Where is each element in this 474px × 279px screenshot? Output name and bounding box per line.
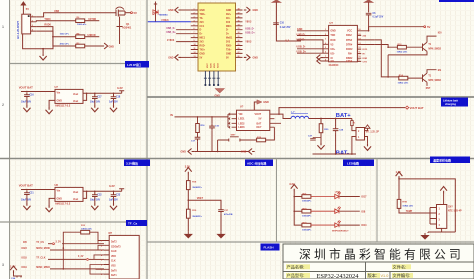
LED D2 — [311, 192, 341, 199]
svg-text:IO33: IO33 — [218, 62, 220, 68]
svg-text:V_3: V_3 — [285, 41, 290, 43]
svg-text:R232: R232 — [346, 34, 352, 37]
ground under C16 — [23, 99, 30, 112]
CH340 right net labels — [363, 35, 368, 63]
sheet border left — [2, 0, 10, 279]
TF bypass caps bottom-left — [10, 266, 22, 279]
svg-text:5V: 5V — [26, 7, 29, 11]
net label BAT+ (big blue) — [336, 113, 351, 119]
svg-text:D-: D- — [226, 30, 229, 32]
capacitor C2x on R30 leg — [308, 136, 321, 141]
resistor R23 1K — [302, 222, 312, 231]
resistor R12 10K — [397, 44, 408, 54]
svg-text:GND: GND — [226, 10, 231, 12]
svg-text:Lithium batt: Lithium batt — [443, 98, 458, 102]
svg-text:10KΩ ±5%: 10KΩ ±5% — [81, 229, 92, 231]
svg-text:D-: D- — [200, 30, 203, 32]
svg-text:0.1uF 25V: 0.1uF 25V — [280, 27, 291, 29]
svg-text:NPN_SMD2: NPN_SMD2 — [428, 49, 441, 51]
ground under module (filled triangle) — [215, 89, 225, 98]
svg-text:Vin: Vin — [57, 190, 61, 193]
resistor R18 390K — [187, 181, 203, 190]
regulator U8 AMS1117-3.3 — [55, 183, 84, 206]
svg-text:3V3: 3V3 — [226, 42, 231, 44]
svg-text:TEMP: TEMP — [406, 211, 413, 213]
svg-text:2: 2 — [325, 34, 326, 36]
svg-text:产品名称:: 产品名称: — [287, 264, 305, 271]
wire pin3 down to R2 row — [36, 27, 75, 38]
wires to grounds (charging left) — [194, 130, 249, 151]
connector J1 HC-1.25-4PWT — [16, 14, 36, 39]
CH340 pin numbers — [325, 29, 361, 61]
svg-text:IO27: IO27 — [207, 62, 209, 68]
svg-text:RXD-: RXD- — [226, 46, 232, 48]
LED D4 — [311, 220, 349, 232]
T1 emitter wire — [387, 51, 427, 77]
svg-text:2: 2 — [2, 103, 4, 107]
svg-text:1.25 4P接口: 1.25 4P接口 — [127, 63, 142, 67]
svg-text:C18: C18 — [116, 96, 121, 98]
svg-text:CLK: CLK — [111, 261, 116, 263]
svg-text:BT_1.25_2P: BT_1.25_2P — [366, 132, 379, 134]
svg-text:U7: U7 — [55, 85, 59, 89]
wires U8 output — [83, 191, 122, 199]
section divider: top of TF card section — [0, 221, 147, 223]
svg-text:3V3: 3V3 — [200, 42, 205, 44]
svg-text:C10: C10 — [280, 23, 285, 25]
svg-text:5: 5 — [325, 47, 326, 49]
svg-text:1000ΩPs: 1000ΩPs — [302, 201, 312, 203]
svg-text:DTR#: DTR# — [346, 43, 353, 46]
ground under C23 — [110, 199, 117, 210]
power port 5V above C6 — [365, 0, 373, 13]
CH340 right pin stubs — [357, 30, 374, 61]
svg-text:IN: IN — [170, 114, 173, 117]
svg-text:M?: M? — [109, 232, 113, 235]
resistor R16 vertical — [196, 117, 206, 133]
ground under R30 — [317, 138, 324, 150]
svg-text:SW?: SW? — [231, 135, 237, 137]
svg-text:Y8U3: Y8U3 — [245, 21, 252, 24]
net label IN — [170, 114, 231, 127]
transistor T2 S8050 — [408, 73, 442, 82]
label box LED circuit — [343, 160, 374, 167]
svg-text:5V: 5V — [226, 57, 229, 59]
svg-text:YIN: YIN — [238, 113, 242, 116]
svg-text:1: 1 — [2, 25, 4, 29]
regulator U7 AMS1117-3.3 — [55, 85, 84, 108]
svg-text:3.3V: 3.3V — [109, 184, 115, 188]
svg-text:0.1uF 25V: 0.1uF 25V — [373, 17, 384, 19]
resistor R13 10K — [81, 225, 92, 234]
svg-text:10KΩ ±5%: 10KΩ ±5% — [397, 52, 408, 54]
T2 collector wire — [427, 70, 441, 73]
svg-text:FLASH: FLASH — [264, 246, 274, 250]
transistor Q1 AO3401 — [113, 7, 132, 30]
net label TEMP — [399, 208, 430, 213]
ground pin of U8 — [46, 198, 56, 211]
resistor R19 — [240, 137, 266, 142]
svg-text:3_3V: 3_3V — [78, 256, 84, 258]
TF row1 TF_CS — [23, 241, 104, 245]
svg-text:CTS#: CTS# — [346, 60, 353, 63]
svg-text:LED电路: LED电路 — [347, 160, 360, 165]
ground arrow right of module pin13 — [244, 54, 258, 60]
module bottom pins (no-connect) — [204, 71, 220, 86]
svg-text:XO: XO — [330, 60, 334, 63]
svg-text:DaT1: DaT1 — [111, 275, 117, 277]
section divider: vertical at x=276 — [276, 159, 278, 243]
svg-text:GND: GND — [226, 53, 231, 55]
TF card connector M1 — [109, 232, 140, 279]
svg-text:C22: C22 — [97, 194, 102, 196]
ESP32 module U2 (yellow) — [198, 3, 236, 71]
svg-text:USB_D-: USB_D- — [245, 27, 254, 30]
resistor R13b 10K — [398, 74, 409, 85]
svg-text:390KΩPs: 390KΩPs — [192, 187, 202, 189]
row: version label — [367, 272, 388, 279]
svg-text:3.3V: 3.3V — [117, 86, 123, 90]
TF connector pin stubs — [101, 241, 109, 277]
ground under C21 — [23, 197, 30, 210]
svg-text:IO2+: IO2+ — [226, 14, 232, 16]
wire inductor to battery — [309, 118, 352, 127]
svg-text:CD/DaT3: CD/DaT3 — [111, 246, 121, 248]
CN1 pin stubs — [430, 208, 437, 225]
svg-text:U?: U? — [330, 21, 334, 25]
svg-text:IO26: IO26 — [211, 62, 213, 68]
resistor R21 1K — [302, 194, 312, 203]
resistor R19b 390K — [187, 209, 203, 218]
svg-text:VCC: VCC — [347, 30, 352, 33]
power flag 3.3V (LED) — [289, 182, 297, 192]
BAT- rail — [313, 153, 357, 155]
power arrow top-right of battery — [365, 125, 370, 128]
power flag 3.3V (reg1 out) — [117, 86, 124, 93]
svg-text:CmD: CmD — [111, 251, 117, 253]
svg-text:1002 ±Ps: 1002 ±Ps — [60, 34, 70, 36]
ground triangle right (ADC) — [218, 232, 225, 238]
svg-text:GND: GND — [241, 151, 247, 154]
net label TXD0 — [44, 18, 51, 21]
wire Q1 drain to 5V flag — [125, 11, 137, 15]
resistor R30 vertical — [319, 124, 329, 138]
svg-text:5V: 5V — [200, 57, 203, 59]
capacitor C18 1uF — [109, 95, 121, 104]
svg-text:3V3: 3V3 — [200, 22, 205, 24]
svg-text:TXD: TXD — [330, 34, 335, 37]
svg-text:U?: U? — [240, 104, 244, 108]
label box FLASH — [261, 244, 280, 251]
svg-text:GND: GND — [253, 56, 259, 59]
capacitor C23 1uF — [109, 193, 121, 202]
LED D3 — [311, 207, 341, 214]
svg-text:3: 3 — [2, 263, 4, 267]
wire R19 to KEY pin — [266, 127, 275, 140]
capacitor C28 — [333, 127, 344, 154]
ground arrow left of module pin12 — [168, 54, 191, 60]
label box 1.25-4P interface — [125, 61, 149, 68]
power arrow above CN1 — [440, 187, 447, 205]
svg-text:USB_D-: USB_D- — [297, 46, 306, 49]
svg-text:GND: GND — [215, 94, 221, 97]
ground flag right (charger IC top) — [254, 100, 269, 110]
svg-text:TXD+: TXD+ — [200, 14, 207, 16]
svg-text:ESP32-2432024: ESP32-2432024 — [317, 273, 360, 279]
svg-text:LED1: LED1 — [335, 192, 341, 194]
power flag 5V (top-left, solid arrow) — [21, 2, 29, 15]
capacitor C16 10uF — [21, 93, 34, 104]
svg-text:10KΩ ±5%: 10KΩ ±5% — [402, 205, 413, 207]
ground arrow mid (charging) — [241, 149, 255, 155]
TITLE BLOCK — [283, 244, 474, 279]
capacitor C18b lower — [191, 133, 200, 143]
svg-text:Vout: Vout — [73, 198, 78, 201]
svg-text:GND: GND — [330, 30, 336, 33]
company name 深圳市晶彩智能有限公司 — [299, 248, 464, 262]
row: file name label — [392, 264, 411, 271]
label box TF_Card — [126, 220, 147, 226]
CH340 left pin wires — [297, 31, 329, 53]
module right net labels — [245, 21, 255, 44]
svg-text:Vout: Vout — [73, 93, 78, 96]
label box 3.3V regulator — [124, 160, 150, 167]
label box ADC divider — [245, 160, 273, 167]
svg-text:Y4B0/B4: Y4B0/B4 — [159, 14, 169, 17]
svg-text:IO5: IO5 — [23, 241, 28, 244]
svg-text:产品型号:: 产品型号: — [287, 272, 305, 279]
svg-text:10: 10 — [358, 56, 360, 58]
svg-text:MnD1: MnD1 — [226, 38, 233, 40]
svg-text:TX-: TX- — [200, 18, 204, 20]
blue highlighted wire TXD net — [148, 19, 191, 22]
svg-text:U0TXD: U0TXD — [88, 18, 96, 21]
net label VOUT BAT (reg2 input) — [19, 183, 33, 187]
svg-text:C16: C16 — [29, 94, 34, 96]
svg-text:BAT: BAT — [257, 122, 262, 125]
wire pin1 up to VBUS rail — [36, 10, 113, 17]
svg-text:GND: GND — [200, 10, 205, 12]
svg-text:RXD-: RXD- — [200, 46, 206, 48]
svg-text:U0RXD: U0RXD — [88, 34, 96, 37]
LED supply rail — [293, 192, 301, 226]
wires U7 output — [83, 93, 122, 101]
wire reg2 input — [21, 189, 55, 191]
cross-coupling wires to transistors — [374, 40, 399, 77]
section divider: bottom of ESP32/CH340 section — [147, 96, 474, 98]
svg-text:AMS1117-3.3: AMS1117-3.3 — [55, 203, 71, 206]
svg-text:10uF 16V: 10uF 16V — [21, 199, 32, 201]
svg-text:10KΩ ±5%: 10KΩ ±5% — [398, 83, 409, 85]
svg-text:TX0+: TX0+ — [226, 50, 232, 52]
svg-text:TF_CLK: TF_CLK — [36, 257, 45, 260]
section divider: full width at y=158.5 — [0, 158, 474, 160]
svg-text:RXD: RXD — [330, 39, 335, 42]
section divider: vertical at x=377 — [376, 159, 378, 243]
transistor T1 S8050 — [406, 42, 441, 51]
svg-text:LED3: LED3 — [238, 126, 245, 129]
ground pin of U7 — [46, 100, 56, 113]
svg-text:EN: EN — [438, 70, 442, 72]
svg-text:GND: GND — [181, 151, 187, 154]
svg-text:470nF/B: 470nF/B — [224, 213, 233, 216]
svg-text:UD-: UD- — [330, 53, 334, 56]
wires to grounds (ADC) — [188, 214, 221, 232]
svg-text:C17: C17 — [97, 96, 102, 98]
resistor R1 100R — [76, 17, 87, 26]
svg-text:10uF 16V: 10uF 16V — [21, 101, 32, 103]
svg-text:NPN_SMD2: NPN_SMD2 — [428, 80, 441, 82]
capacitor C20b — [218, 208, 233, 217]
LED row wires and labels — [340, 196, 368, 228]
product model value ESP32-2432024 — [317, 273, 360, 279]
power flag 3.3V (temp) — [396, 170, 403, 179]
push switch SW1 — [217, 135, 240, 153]
svg-text:USB_D+: USB_D+ — [245, 31, 255, 34]
ground under C18 — [110, 101, 117, 112]
charger IC U10 — [237, 104, 270, 130]
ESP32 module pin numbers — [194, 9, 240, 58]
svg-text:IO17: IO17 — [361, 196, 367, 199]
net label VOUT BAT (reg1 input) — [19, 85, 33, 89]
svg-text:CTS: CTS — [363, 61, 368, 63]
svg-text:CH340C: CH340C — [329, 63, 339, 67]
svg-text:WHP500RGBCT: WHP500RGBCT — [332, 231, 349, 233]
resistor R20 10K vertical — [397, 199, 413, 208]
capacitor C6 0.1uF — [366, 13, 384, 31]
svg-text:USB: USB — [54, 10, 59, 13]
svg-text:5V: 5V — [259, 118, 262, 121]
ground triangle left (ADC) — [185, 232, 192, 238]
svg-text:USB_D-: USB_D- — [166, 27, 175, 30]
ground (temp section) — [422, 228, 442, 239]
resistor R22 1K — [302, 208, 312, 217]
net label RXD0 — [44, 24, 51, 27]
svg-text:GND: GND — [168, 9, 174, 12]
R13 wires — [63, 232, 105, 249]
wire R1 to U0TXD — [85, 18, 100, 21]
svg-text:文件名:: 文件名: — [393, 264, 407, 271]
svg-text:GND: GND — [57, 198, 63, 201]
svg-text:DCD: DCD — [363, 49, 368, 51]
label box temperature sampling — [430, 157, 470, 164]
crystal pins XI XO with arrows — [317, 55, 329, 64]
svg-text:1: 1 — [325, 29, 326, 31]
svg-text:3_3V: 3_3V — [56, 242, 62, 244]
svg-text:AO3401: AO3401 — [122, 27, 132, 30]
svg-text:RTS#: RTS# — [346, 39, 353, 42]
capacitor C10 0.1uF on 5V stem — [273, 23, 291, 29]
wire Q1 gate down — [117, 17, 123, 45]
svg-text:USB_D+: USB_D+ — [166, 31, 176, 34]
svg-text:IO18: IO18 — [22, 257, 28, 260]
ground arrow left of module pin1 — [168, 7, 191, 13]
svg-text:U8: U8 — [55, 183, 59, 187]
svg-text:C21: C21 — [29, 192, 34, 194]
capacitor C21 10uF — [21, 191, 34, 202]
svg-text:GND: GND — [263, 101, 269, 104]
section divider: top of title area — [147, 241, 474, 243]
charger IC right stubs — [270, 113, 291, 127]
power flag 3.3V (ADC) — [185, 165, 192, 175]
resistor R3 4.7K — [60, 42, 85, 47]
svg-text:LED1: LED1 — [238, 118, 245, 121]
svg-text:IO25: IO25 — [214, 62, 216, 68]
ground symbol section1 — [40, 53, 47, 60]
svg-text:VSS: VSS — [111, 266, 116, 268]
svg-text:GND: GND — [253, 9, 259, 12]
svg-text:4702 ±Ps: 4702 ±Ps — [60, 42, 70, 45]
svg-text:3: 3 — [325, 38, 326, 40]
svg-text:1002 ±Ps: 1002 ±Ps — [77, 24, 87, 26]
T1 collector wire to DTR label — [427, 33, 442, 43]
T2 emitter wire to RST label — [426, 82, 431, 90]
TF row3 TF_CLK — [22, 256, 105, 260]
row: file number label — [392, 272, 413, 279]
resistor P1 small vertical — [351, 121, 356, 126]
wire to R18 — [187, 175, 189, 181]
row: product name label — [286, 264, 310, 271]
svg-text:文件编号:: 文件编号: — [393, 272, 411, 279]
svg-text:UD+: UD+ — [330, 48, 335, 51]
svg-text:5V: 5V — [427, 25, 431, 29]
svg-text:DaT2: DaT2 — [111, 242, 117, 244]
svg-text:AMS1117-3.3: AMS1117-3.3 — [55, 105, 71, 108]
wire pin4 down to bottom rail — [23, 31, 53, 53]
wire VCC rail to 5V label — [369, 25, 431, 31]
wire and VDET junction — [188, 190, 222, 210]
svg-text:DaT0: DaT0 — [111, 270, 117, 272]
svg-text:深圳市晶彩智能有限公司: 深圳市晶彩智能有限公司 — [299, 248, 464, 262]
svg-text:RXD0: RXD0 — [44, 24, 51, 27]
svg-text:6: 6 — [325, 52, 326, 54]
connector CN1 NTC — [437, 205, 462, 229]
svg-text:RI#: RI# — [348, 53, 352, 56]
svg-text:3V3: 3V3 — [226, 22, 231, 24]
wire R2 to U0RXD — [85, 34, 100, 37]
svg-text:1000ΩPs: 1000ΩPs — [302, 215, 312, 217]
ground arrow bottom-right of battery — [364, 144, 371, 151]
TF row4 MISO — [22, 266, 105, 270]
svg-text:GND: GND — [168, 56, 174, 59]
svg-text:VDET: VDET — [197, 197, 204, 200]
ESP32 module left pin stubs — [191, 10, 198, 57]
svg-text:VOUT BAT: VOUT BAT — [19, 183, 33, 187]
svg-text:MISO_MISO: MISO_MISO — [36, 266, 50, 269]
svg-text:HC-1.25-4PWT: HC-1.25-4PWT — [16, 21, 20, 39]
svg-text:1Y8U3: 1Y8U3 — [161, 19, 169, 22]
capacitor C22 10uF — [90, 193, 102, 202]
ground under C17 — [91, 101, 98, 112]
svg-text:CN?: CN? — [448, 207, 453, 209]
capacitor C19 — [209, 117, 219, 130]
svg-text:Vout: Vout — [73, 100, 78, 103]
svg-text:RST: RST — [426, 88, 431, 90]
svg-text:GND: GND — [109, 45, 115, 48]
diode D1 (TVS) at module top-left — [153, 2, 168, 22]
svg-text:Y8U3: Y8U3 — [245, 40, 252, 43]
label box lithium charging — [441, 98, 468, 107]
battery connector BT1 — [356, 128, 379, 141]
IC U9 CH340C — [329, 21, 358, 67]
svg-text:3.3V稳压: 3.3V稳压 — [126, 160, 138, 165]
blue selection bar top right — [439, 0, 474, 2]
svg-text:IO23: IO23 — [22, 247, 28, 250]
svg-text:TF_CS: TF_CS — [36, 241, 44, 244]
battery connector wires — [352, 126, 368, 154]
section divider: vertical at x=147 — [146, 0, 148, 279]
wire junction down to R3 — [53, 37, 76, 46]
